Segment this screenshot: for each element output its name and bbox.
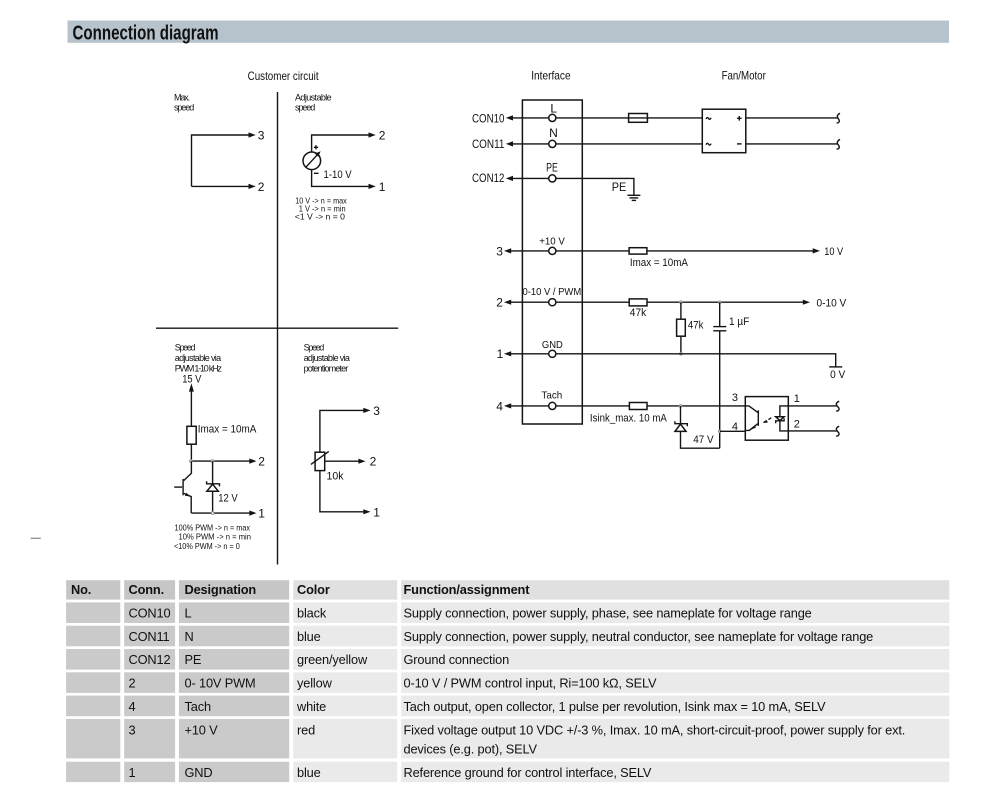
svg-text:Supply connection, power suppl: Supply connection, power supply, phase, … [404,606,812,621]
wire PE to ground [556,178,634,195]
svg-text:GND: GND [185,765,213,780]
wire resistor to opto pin3 [647,405,745,407]
pin label 2 [370,455,377,469]
optocoupler U1 [745,397,788,441]
fuse F1 [629,114,648,123]
node 47k shunt top [680,301,683,304]
wire pin4 with left arrow [504,403,549,408]
svg-text:N: N [185,629,194,644]
terminal N [549,126,558,148]
net label 0-10 V [817,298,847,310]
node capacitor top [718,301,721,304]
svg-text:3: 3 [129,723,136,738]
heading Customer circuit [248,69,320,83]
svg-text:blue: blue [297,765,321,780]
svg-text:<10% PWM -> n = 0: <10% PWM -> n = 0 [174,541,240,551]
svg-text:Tach: Tach [185,699,211,714]
svg-text:Imax = 10mA: Imax = 10mA [630,257,689,269]
svg-text:2: 2 [258,180,265,194]
wire pin1 with left arrow [504,351,549,356]
svg-text:0 V: 0 V [830,369,846,381]
value label 47k [688,320,704,332]
wire to 0-10V output arrow [647,300,810,305]
svg-text:1: 1 [497,347,504,361]
svg-text:potentiometer: potentiometer [304,363,349,373]
svg-text:2: 2 [794,418,800,430]
pin label 2 [258,455,265,469]
svg-text:<1 V -> n = 0: <1 V -> n = 0 [295,211,345,221]
table row CON11 [66,626,949,647]
svg-text:L: L [550,101,557,115]
svg-text:0-10 V / PWM control input, Ri: 0-10 V / PWM control input, Ri=100 kΩ, S… [404,676,658,691]
wire motor plus output [746,117,838,119]
wire opto pin1 output [788,405,837,407]
table row 3 [66,719,949,759]
pin label 2 [794,418,800,430]
svg-text:N: N [549,126,558,140]
svg-text:GND: GND [542,339,563,351]
svg-text:CON10: CON10 [129,606,171,621]
pin label 1 [373,505,380,519]
svg-text:Tach: Tach [541,390,562,402]
wire node to pin 2 [191,459,256,464]
svg-text:4: 4 [496,399,503,413]
wire max-speed to pin 3 [192,132,256,186]
wire source plus to pin 2 [312,132,376,151]
pin label 2 [258,180,265,194]
wire L to fuse [556,117,702,119]
svg-text:4: 4 [129,699,136,714]
wire CON12 with left arrow [506,176,549,181]
heading Interface [531,69,571,83]
pin label 4 [732,421,738,433]
potentiometer R2 10k [311,451,329,470]
svg-text:green/yellow: green/yellow [297,652,368,667]
svg-text:Isink_max. 10 mA: Isink_max. 10 mA [590,413,668,425]
svg-text:PE: PE [612,180,627,194]
wire CON11 with left arrow [506,141,549,146]
node zener bottom junction [211,512,214,515]
svg-text:adjustable via: adjustable via [175,353,221,363]
wire pin3 with left arrow [504,248,549,253]
zener diode D1 12V [207,461,220,513]
svg-text:Tach output, open collector, 1: Tach output, open collector, 1 pulse per… [404,699,827,714]
node 47k shunt bottom [680,353,683,356]
svg-text:15 V: 15 V [182,373,202,385]
svg-text:CON12: CON12 [472,171,505,185]
resistor R7 Isink [629,403,647,410]
svg-text:1: 1 [379,180,386,194]
svg-text:2: 2 [379,128,386,142]
pin label 2 [496,296,503,310]
wire to 47k series resistor [556,301,629,303]
svg-text:1: 1 [794,393,800,405]
svg-text:Adjustable: Adjustable [295,93,332,103]
svg-text:Interface: Interface [531,69,571,83]
pin label 1 [379,180,386,194]
wire +10V to resistor [556,250,629,252]
terminal Tach [541,390,562,410]
pin label 1 [497,347,504,361]
value label Imax = 10mA [198,423,257,435]
wire motor minus output [746,143,838,145]
svg-text:1: 1 [258,507,265,521]
label CON10 [472,111,505,125]
capacitor C1 1uF [713,302,726,448]
label CON11 [472,137,505,151]
wire pot bottom to pin 1 [320,471,371,515]
svg-text:Supply connection, power suppl: Supply connection, power supply, neutral… [404,629,874,644]
transistor Q1 [174,461,191,513]
value label 1-10 V [324,169,353,181]
svg-text:0-10 V: 0-10 V [817,298,847,310]
svg-text:L: L [185,606,192,621]
wire 15V supply with up arrow [189,383,194,426]
voltage source V1 1-10V [303,145,321,173]
svg-text:CON10: CON10 [472,111,505,125]
wire opto pin2 output [788,430,837,432]
label CON12 [472,171,505,185]
terminal 0-10 V / PWM [523,287,582,306]
svg-text:Designation: Designation [185,582,257,597]
table row 2 [66,672,949,693]
ground earth symbol [627,195,640,200]
table row CON10 [66,602,949,623]
value label 1 uF [729,316,749,328]
svg-text:1: 1 [129,765,136,780]
wire max-speed to pin 2 [192,184,256,189]
svg-text:blue: blue [297,629,321,644]
wire wiper to pin 2 [325,459,366,464]
table row 1 [66,762,949,782]
break squiggle pin2 line [836,426,839,436]
resistor R1 [187,426,196,444]
svg-text:47k: 47k [630,307,647,319]
pin label 3 [496,244,503,258]
svg-text:47k: 47k [688,320,704,332]
svg-text:10 V: 10 V [824,246,844,258]
svg-text:speed: speed [174,102,194,112]
wire Tach to resistor [556,405,630,407]
svg-text:Imax = 10mA: Imax = 10mA [198,423,257,435]
table row 4 [66,696,949,717]
node collector junction [190,460,193,463]
svg-text:Fixed voltage output 10 VDC +/: Fixed voltage output 10 VDC +/-3 %, Imax… [404,723,906,738]
terminal 0V bar [829,366,842,368]
wire pot top to pin 3 [320,408,371,452]
divider horizontal line [156,327,398,329]
terminal L [549,101,558,121]
svg-text:Connection diagram: Connection diagram [73,22,219,44]
node opto pin4 junction [718,430,721,433]
label Adjustable speed [295,93,332,113]
label Speed adjustable via potentiometer [304,343,350,374]
svg-text:3: 3 [732,392,738,404]
svg-text:Speed: Speed [304,343,325,353]
wire source minus to pin 1 [312,170,376,189]
node zener 47V top [679,405,682,408]
pin label 3 [732,392,738,404]
svg-text:speed: speed [295,102,315,112]
break squiggle L line [837,113,840,123]
value label Imax = 10mA [630,257,689,269]
wire GND rail [556,354,836,367]
label Max. speed [174,93,194,113]
wire emitter rail to pin 1 [191,511,256,516]
svg-text:No.: No. [71,582,91,597]
table row CON12 [66,649,949,670]
terminal PE [546,161,558,182]
svg-text:2: 2 [258,455,265,469]
svg-text:PE: PE [185,652,202,667]
svg-text:CON11: CON11 [472,137,505,151]
wire resistor to node [190,444,192,461]
svg-text:12 V: 12 V [218,493,238,505]
value label Isink_max. 10 mA [590,413,668,425]
svg-text:Customer circuit: Customer circuit [248,69,320,83]
label Speed adjustable via PWM [175,343,223,374]
svg-text:CON11: CON11 [129,629,170,644]
note voltage mapping [295,195,348,221]
wire N to motor [556,143,702,145]
title bar [68,21,950,45]
svg-text:PWM 1-10 kHz: PWM 1-10 kHz [175,363,223,373]
svg-text:10k: 10k [327,471,344,483]
value label 47k [630,307,647,319]
pin label 1 [794,393,800,405]
svg-text:0- 10V PWM: 0- 10V PWM [185,676,256,691]
interface box [522,100,582,424]
terminal +10 V [539,237,565,255]
svg-text:Conn.: Conn. [129,582,165,597]
svg-text:Ground connection: Ground connection [404,652,510,667]
svg-text:Speed: Speed [175,343,196,353]
svg-text:yellow: yellow [297,676,333,691]
divider vertical line [277,92,279,565]
note PWM mapping [174,522,251,551]
svg-text:3: 3 [496,244,503,258]
heading Fan/Motor [722,69,766,83]
svg-text:+10 V: +10 V [539,237,565,248]
net label 10 V [824,246,844,258]
svg-text:adjustable via: adjustable via [304,353,350,363]
svg-text:1: 1 [373,505,380,519]
table header row [66,580,949,599]
break squiggle N line [837,139,840,149]
svg-text:0-10 V / PWM: 0-10 V / PWM [523,287,582,298]
svg-text:Reference ground for control i: Reference ground for control interface, … [404,765,652,780]
net label 0 V [830,369,846,381]
pin label 1 [258,507,265,521]
svg-text:1-10 V: 1-10 V [324,169,353,181]
svg-text:4: 4 [732,421,738,433]
svg-text:devices (e.g. pot), SELV: devices (e.g. pot), SELV [404,741,538,756]
rectifier M1 fan/motor [702,109,746,153]
value label 47 V [693,434,714,446]
label PE [612,180,627,194]
supply label 15 V [182,373,202,385]
resistor R6 47k shunt [677,302,686,354]
svg-text:3: 3 [373,404,380,418]
value label 10k [327,471,344,483]
svg-text:47 V: 47 V [693,434,714,446]
svg-text:red: red [297,723,315,738]
svg-text:2: 2 [496,296,503,310]
svg-text:Fan/Motor: Fan/Motor [722,69,766,83]
svg-text:CON12: CON12 [129,652,171,667]
break squiggle pin1 line [836,401,839,411]
zener diode D2 47V [675,406,720,448]
svg-text:Max.: Max. [174,93,190,103]
wire pin2 with left arrow [504,300,549,305]
svg-text:Function/assignment: Function/assignment [404,582,531,597]
svg-text:2: 2 [129,676,136,691]
wire CON10 with left arrow [506,115,549,120]
pin label 4 [496,399,503,413]
svg-text:PE: PE [546,161,558,175]
node zener top junction [211,460,214,463]
svg-text:3: 3 [258,128,265,142]
svg-text:Color: Color [297,582,330,597]
svg-text:1 µF: 1 µF [729,316,749,328]
margin dash [31,537,41,539]
svg-text:black: black [297,606,327,621]
resistor R5 47k series [629,299,647,306]
resistor R4 Imax [629,248,647,254]
pin label 3 [258,128,265,142]
pin label 3 [373,404,380,418]
value label 12 V [218,493,238,505]
svg-text:+10 V: +10 V [185,723,219,738]
wire to 10V output arrow [647,248,820,253]
svg-text:2: 2 [370,455,377,469]
svg-text:white: white [296,699,326,714]
terminal GND [542,339,563,358]
wire node to opto pin4 [720,430,746,432]
pin label 2 [379,128,386,142]
